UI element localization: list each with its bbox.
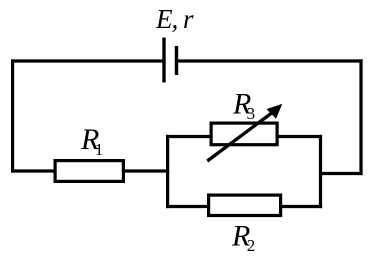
wire top branch left [166,135,211,138]
wire bottom-left horizontal [11,169,55,172]
battery cell short plate [175,46,178,75]
wire outer right vertical [359,59,362,175]
wire top-left horizontal [11,59,164,62]
wire bottom branch right [280,205,322,208]
battery cell long plate [162,38,165,83]
svg-text:2: 2 [247,236,256,255]
wire bottom branch left [166,205,209,208]
wire middle to outer right [321,172,363,175]
variable-resistor arrowhead [267,105,281,118]
svg-text:E, r: E, r [155,4,194,34]
node B: right vertical of parallel section [319,135,322,208]
node A: left vertical of parallel section [166,135,169,208]
wire left vertical [11,59,14,172]
wire top-right horizontal [177,59,363,62]
svg-text:1: 1 [95,140,104,159]
svg-text:3: 3 [247,104,256,123]
variable-resistor arrow shaft through R3 [207,112,273,161]
resistor R1 [55,161,123,182]
resistor R2 [209,195,281,215]
wire R1 to node A [125,169,169,172]
wire top branch right [277,135,322,138]
resistor R3 [211,123,277,145]
